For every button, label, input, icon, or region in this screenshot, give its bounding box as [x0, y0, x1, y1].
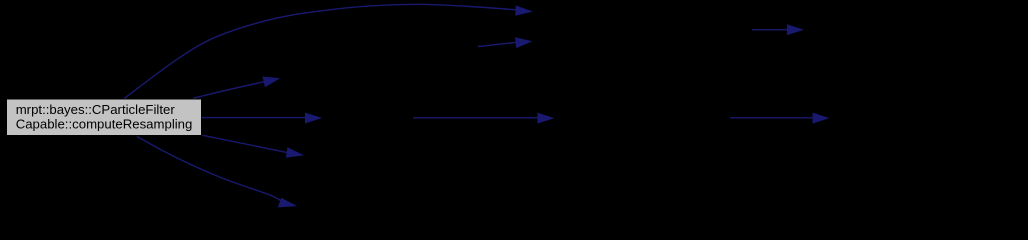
- arrowhead of E8: [537, 113, 554, 124]
- wire: edge E6 diagonal down-right from node box: [203, 135, 287, 152]
- arrowhead of E3: [787, 24, 804, 35]
- arrowhead of E9: [813, 113, 830, 124]
- svg-text:mrpt::bayes::CParticleFilter: mrpt::bayes::CParticleFilter: [16, 102, 176, 117]
- arrowhead of E5: [305, 113, 322, 124]
- wire: edge E2 short arrow into hidden node: [478, 42, 517, 46]
- wire: edge E7 bottom curve from node box: [137, 137, 282, 202]
- arrowhead of E1: [515, 5, 533, 15]
- wire: edge E8 middle horizontal arrow: [413, 117, 538, 119]
- wire: edge E9 right horizontal arrow: [730, 117, 813, 119]
- arrowhead of E6: [286, 147, 304, 158]
- wire: edge E5 horizontal from node box: [202, 117, 306, 119]
- arrowhead of E4: [263, 77, 281, 88]
- svg-text:Capable::computeResampling: Capable::computeResampling: [16, 117, 193, 132]
- wire: edge E4 diagonal up-right from node box: [193, 82, 265, 99]
- arrowhead of E2: [515, 37, 532, 48]
- wire: edge E1 top curve from node box to hidden node: [124, 4, 516, 98]
- arrowhead of E7: [278, 198, 298, 208]
- node box mrpt::bayes::CParticleFilterCapable::computeResampling: [7, 99, 202, 136]
- wire: edge E3 short horizontal arrow (top right): [752, 29, 788, 31]
